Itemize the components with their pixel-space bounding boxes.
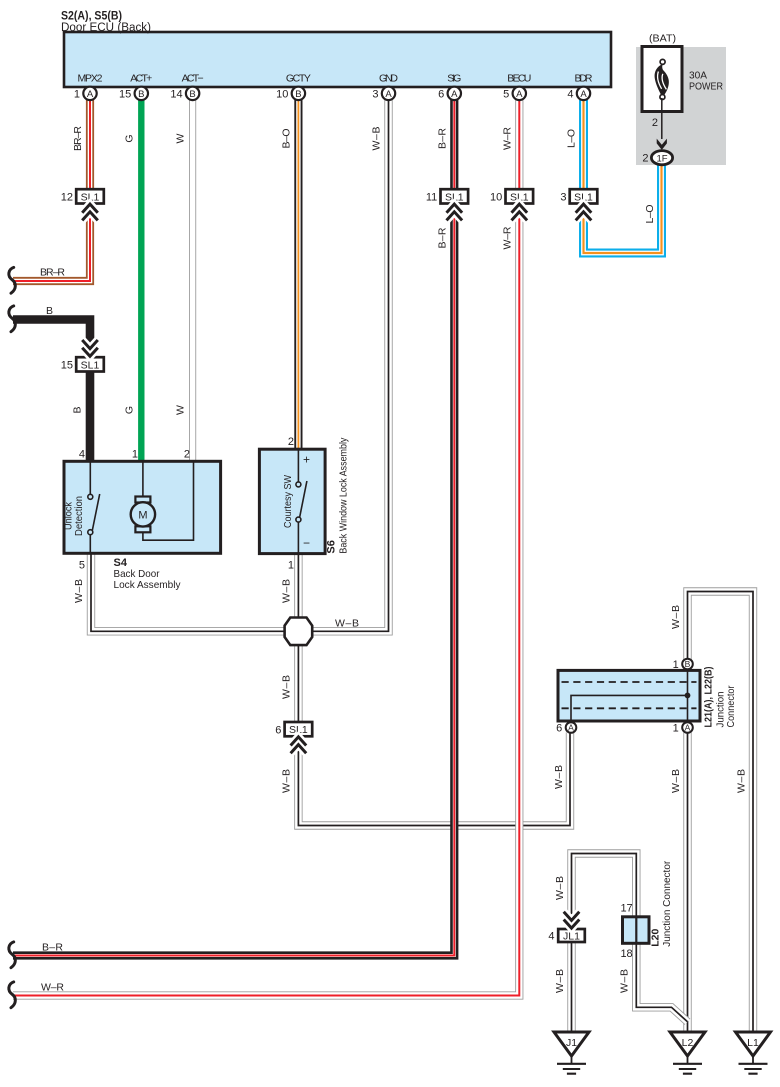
L20 junction connector box: [623, 917, 650, 944]
S6 Back Window Lock Assembly box: [259, 449, 325, 553]
svg-text:W: W: [175, 133, 187, 143]
ground J1: [554, 1032, 589, 1074]
svg-text:W–R: W–R: [501, 226, 513, 249]
svg-text:A: A: [451, 89, 458, 100]
svg-text:A: A: [580, 89, 587, 100]
svg-text:W–B: W–B: [735, 769, 747, 793]
svg-text:G: G: [123, 406, 135, 414]
svg-text:L21(A), L22(B): L21(A), L22(B): [703, 667, 715, 728]
splice SL1 (10) on W-R wire: [506, 189, 534, 203]
svg-text:W: W: [175, 405, 187, 415]
svg-text:1F: 1F: [656, 153, 667, 164]
svg-text:15: 15: [119, 88, 131, 100]
ECU S2(A),S5(B) Door ECU (Back) box: [64, 32, 611, 87]
horizontal wire labels: [40, 266, 359, 993]
wire W-B from JL1 down to J1 ground: [567, 942, 575, 1034]
svg-text:B: B: [295, 89, 301, 100]
splice SL1 (12) on BR-R wire: [76, 189, 104, 203]
svg-text:1: 1: [673, 659, 679, 671]
svg-text:6: 6: [438, 88, 444, 100]
wire B from left break to S4 pin 4: [13, 320, 90, 463]
svg-text:B: B: [189, 89, 195, 100]
svg-text:18: 18: [620, 948, 632, 960]
wire W-B from S6 pin 1 to junction octagon: [294, 554, 302, 618]
svg-text:W–B: W–B: [281, 769, 293, 793]
svg-text:B–R: B–R: [436, 128, 448, 149]
wire W-B from L21 pin B up over to L1 ground: [688, 592, 754, 1034]
svg-text:3: 3: [560, 192, 566, 204]
svg-text:1: 1: [74, 88, 80, 100]
wire B-R from SIG pin 6 to left break: [13, 100, 454, 956]
svg-text:W–B: W–B: [335, 618, 359, 630]
svg-text:Detection: Detection: [73, 496, 85, 536]
svg-text:B: B: [72, 406, 84, 413]
svg-text:SIG: SIG: [447, 73, 461, 85]
svg-text:1: 1: [132, 449, 138, 461]
svg-text:L1: L1: [747, 1037, 759, 1049]
svg-text:5: 5: [79, 560, 85, 572]
svg-text:ACT−: ACT−: [182, 73, 204, 85]
S4 Back Door Lock Assembly box: [64, 461, 221, 553]
svg-text:S6: S6: [326, 540, 338, 553]
svg-text:W–B: W–B: [670, 605, 682, 629]
svg-text:W–B: W–B: [281, 675, 293, 699]
svg-text:W–R: W–R: [41, 981, 64, 993]
svg-text:MPX2: MPX2: [78, 73, 103, 85]
svg-text:A: A: [568, 723, 574, 733]
svg-text:17: 17: [620, 903, 632, 915]
svg-text:W–B: W–B: [281, 579, 293, 603]
svg-text:1: 1: [673, 723, 679, 735]
svg-text:Junction Connector: Junction Connector: [661, 860, 673, 946]
svg-text:4: 4: [548, 931, 554, 943]
svg-text:B: B: [46, 305, 53, 317]
L21 pin circles: [682, 659, 693, 670]
svg-text:A: A: [87, 89, 94, 100]
svg-text:5: 5: [503, 88, 509, 100]
svg-text:Courtesy SW: Courtesy SW: [282, 475, 294, 528]
svg-text:J1: J1: [566, 1037, 577, 1049]
svg-text:POWER: POWER: [689, 81, 723, 93]
ground L1: [736, 1032, 771, 1074]
wire G from ACT+ pin 15 to S4 pin 1: [138, 100, 144, 462]
svg-text:A: A: [385, 89, 392, 100]
wire W from ACT- pin 14 to S4 pin 2: [189, 100, 196, 462]
wire W-B from octagon through SL1(6) to L21 pin 6A: [298, 645, 570, 826]
svg-text:10: 10: [276, 88, 288, 100]
splice SL1 (11) on B-R wire: [441, 189, 469, 203]
ECU pin circles: [83, 87, 590, 100]
svg-text:L2: L2: [682, 1037, 694, 1049]
svg-text:W–B: W–B: [554, 969, 566, 993]
svg-text:BR–R: BR–R: [72, 126, 84, 151]
svg-text:W–B: W–B: [73, 579, 85, 603]
svg-text:B: B: [685, 659, 691, 669]
S6 courtesy switch: [298, 449, 307, 554]
L21(A),L22(B) junction connector box: [558, 670, 700, 721]
svg-text:G: G: [123, 134, 135, 142]
svg-text:B–O: B–O: [280, 129, 292, 149]
splice SL1 (3) on L-O wire: [570, 189, 598, 203]
svg-text:(BAT): (BAT): [649, 33, 676, 45]
splice JL1 (4): [558, 929, 585, 942]
svg-text:3: 3: [372, 88, 378, 100]
fuse block background (BAT): [636, 47, 726, 165]
svg-text:Lock Assembly: Lock Assembly: [114, 579, 182, 591]
svg-text:GCTY: GCTY: [286, 73, 311, 85]
wire W-B from S4 pin 5 to junction octagon: [91, 554, 286, 632]
svg-text:2: 2: [288, 436, 294, 448]
svg-text:B–R: B–R: [436, 227, 448, 248]
S4 motor M: [143, 461, 194, 540]
svg-text:M: M: [138, 510, 147, 522]
svg-text:L–O: L–O: [644, 205, 656, 224]
svg-text:W–B: W–B: [553, 765, 565, 789]
wire W-B from L20 pin 18 diagonal to L2 wire: [636, 943, 687, 1022]
svg-text:BR–R: BR–R: [40, 266, 65, 278]
svg-text:W–B: W–B: [371, 127, 383, 151]
svg-text:W–B: W–B: [670, 769, 682, 793]
svg-text:B–R: B–R: [42, 941, 63, 953]
svg-text:6: 6: [556, 723, 562, 735]
svg-text:B: B: [138, 89, 144, 100]
svg-text:GND: GND: [379, 73, 398, 85]
connector oval 1F: [651, 151, 672, 165]
svg-text:15: 15: [61, 360, 73, 372]
svg-text:S2(A), S5(B): S2(A), S5(B): [61, 11, 122, 23]
svg-text:4: 4: [79, 449, 85, 461]
svg-text:1: 1: [288, 560, 294, 572]
svg-text:4: 4: [567, 88, 573, 100]
fuse 30A POWER: [642, 47, 682, 112]
svg-text:2: 2: [184, 449, 190, 461]
svg-text:W–R: W–R: [501, 127, 513, 150]
svg-text:BDR: BDR: [575, 73, 593, 85]
svg-text:W–B: W–B: [554, 876, 566, 900]
splice SL1 (15) on B wire: [76, 357, 104, 371]
wire W-R from BECU pin 5 to left break: [13, 100, 519, 996]
fuse lead with arrow into 1F: [661, 98, 663, 139]
svg-text:Door ECU (Back): Door ECU (Back): [61, 22, 151, 34]
wire W-B from L21 pin 1A down to L2 ground: [683, 733, 691, 1034]
svg-text:BECU: BECU: [507, 73, 531, 85]
wire B-O from GCTY pin 10 to S6 pin 2: [294, 100, 302, 450]
svg-text:ACT+: ACT+: [130, 73, 152, 85]
svg-text:−: −: [303, 536, 310, 550]
svg-text:L–O: L–O: [566, 129, 578, 148]
svg-text:A: A: [685, 723, 691, 733]
wire W-B loop from JL1 up over to L20 pin 17: [572, 854, 637, 930]
svg-text:10: 10: [490, 192, 502, 204]
splice SL1 (6) on W-B wire: [285, 722, 313, 736]
svg-text:W–B: W–B: [619, 969, 631, 993]
wire break squiggles at left edge: [9, 267, 16, 293]
svg-text:12: 12: [61, 192, 73, 204]
wire color labels (rotated): [72, 126, 748, 993]
ground L2: [670, 1032, 705, 1074]
svg-text:6: 6: [275, 724, 281, 736]
S4 unlock detection switch: [90, 461, 99, 554]
svg-text:2: 2: [642, 153, 648, 165]
svg-text:Back Window Lock Assembly: Back Window Lock Assembly: [338, 437, 350, 554]
svg-text:Connector: Connector: [725, 685, 737, 727]
svg-text:A: A: [516, 89, 523, 100]
svg-text:14: 14: [170, 88, 182, 100]
wire BR-R from MPX2 pin 1 to left break: [13, 100, 90, 281]
svg-text:L20: L20: [650, 929, 662, 947]
wire L-O from BDR pin 4 to fuse 1F: [584, 100, 662, 253]
svg-text:+: +: [303, 453, 310, 467]
wire W-B from GND pin 3 to junction octagon: [311, 100, 389, 631]
svg-text:2: 2: [652, 117, 658, 129]
svg-text:11: 11: [426, 192, 437, 204]
junction octagon node: [285, 618, 313, 646]
